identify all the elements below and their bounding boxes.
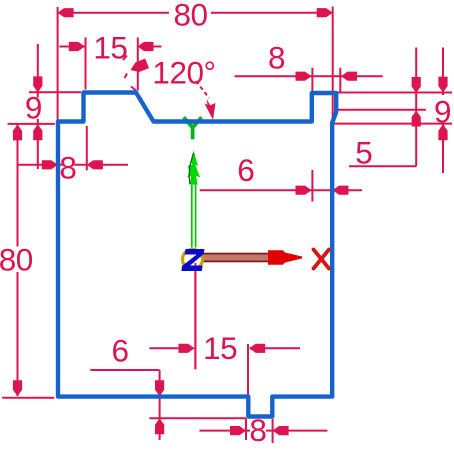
dimension 8 left: extension line xyxy=(17,126,128,170)
dimension 6 bottom-left: arrows xyxy=(155,380,164,396)
dimension 80 top: arrows xyxy=(58,8,74,17)
svg-text:8: 8 xyxy=(59,150,77,186)
X axis label xyxy=(314,250,330,269)
svg-text:5: 5 xyxy=(355,134,373,170)
Y axis label glyph xyxy=(184,117,202,139)
X axis shaft xyxy=(202,254,269,262)
dimension 9 left: extension lines xyxy=(8,44,81,169)
dimension 120 deg: vertex tick xyxy=(131,87,136,91)
dimension 80 top: dimension line xyxy=(58,12,169,14)
dimension 9 right: extension line xyxy=(334,48,452,174)
dimension 9 right: dimension line xyxy=(442,48,444,96)
origin marker Z glyph xyxy=(181,249,205,271)
dimension 8 top-right: extension lines xyxy=(235,68,383,93)
svg-text:80: 80 xyxy=(0,242,33,278)
dimension 9 left: arrows xyxy=(33,76,42,92)
dimension 80 left: arrows xyxy=(13,124,22,140)
dimension 8 bottom: extension lines xyxy=(200,418,328,443)
dimension 120 deg: dashed leader to lower arrow xyxy=(196,81,209,98)
dimension 8 bottom: dimension line xyxy=(200,430,251,432)
svg-text:9: 9 xyxy=(434,94,452,130)
dimension 8 top-right: dimension line xyxy=(235,75,383,77)
dimension 120 deg: upper arrow xyxy=(129,59,149,75)
dimension 120 deg: lower arrow xyxy=(205,103,216,120)
dimension 5 right: arrows xyxy=(412,77,421,93)
dimension 8 left: dimension line xyxy=(17,164,62,166)
dimension 15 bottom: dimension line xyxy=(149,347,193,349)
dimension 8 bottom: arrows xyxy=(230,426,246,435)
dimension 6 bottom-left: notch bottom extension line xyxy=(149,417,246,419)
dimension 6 bottom-left: dimension line xyxy=(159,370,161,440)
dimension 9 left: dimension line xyxy=(37,44,39,98)
dimension 15 top: arrows xyxy=(69,42,85,51)
svg-text:8: 8 xyxy=(268,40,286,76)
dimension 8 left: arrows xyxy=(42,160,58,169)
svg-text:9: 9 xyxy=(25,89,43,125)
svg-text:15: 15 xyxy=(93,29,127,65)
dimension 15 bottom: arrows xyxy=(179,344,195,353)
dimension 6 top: dimension line xyxy=(200,170,362,202)
dimension 80 left: dimension line xyxy=(2,124,54,397)
svg-text:120°: 120° xyxy=(152,55,215,91)
Y axis arrowhead shading xyxy=(189,153,193,184)
dimension 8 top-right: arrows xyxy=(296,72,312,81)
svg-text:6: 6 xyxy=(112,333,130,369)
Y axis arrowhead xyxy=(187,151,200,185)
dimension 5 right: dimension+leader line xyxy=(415,48,417,167)
Y axis shaft xyxy=(191,185,193,248)
profile outline (blue sketch) xyxy=(58,93,336,417)
svg-text:80: 80 xyxy=(173,0,207,32)
origin extension line (red, down from origin) xyxy=(194,263,196,369)
dimension 15 top: dimension line tails xyxy=(59,46,84,48)
dimension 80 left: bottom extension line xyxy=(2,397,54,399)
dimension 15 bottom: extension lines xyxy=(149,270,300,395)
origin marker ring xyxy=(183,249,203,269)
dimension 80 top: extension lines xyxy=(58,7,333,122)
svg-text:15: 15 xyxy=(203,330,237,366)
svg-text:6: 6 xyxy=(237,152,255,188)
dimension 15 top: extension lines xyxy=(59,38,161,91)
dimension 6 top: left extension line xyxy=(311,170,313,202)
dimension 9 right: arrows xyxy=(438,77,447,93)
dimension 6 top: arrows xyxy=(296,186,312,195)
X axis arrowhead xyxy=(268,250,302,265)
dimension 5 right: extension lines xyxy=(337,48,452,167)
dimension 120 deg: arc dashes left xyxy=(123,56,209,99)
dimension 6 bottom-left: leader line xyxy=(90,370,246,440)
